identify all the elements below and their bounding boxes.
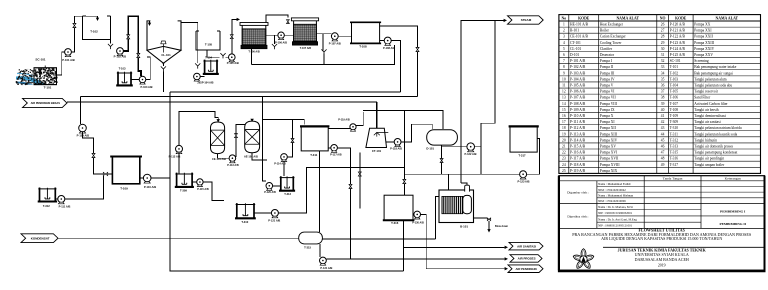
svg-text:Tangki umpan boiler: Tangki umpan boiler (694, 163, 725, 167)
svg-text:Tangki air bersih: Tangki air bersih (694, 108, 719, 112)
svg-text:CE-101 A/B: CE-101 A/B (570, 35, 588, 39)
svg-text:P-120 A/B: P-120 A/B (264, 191, 276, 194)
svg-text:Screening: Screening (694, 59, 709, 63)
tank T-311 (301, 126, 328, 150)
svg-text:Pompa XX: Pompa XX (694, 23, 710, 27)
svg-text:T-311: T-311 (310, 153, 317, 157)
svg-text:Keterangan: Keterangan (725, 177, 741, 181)
agitated tank T-310 (237, 205, 254, 219)
svg-text:T-105: T-105 (205, 43, 213, 47)
svg-text:P-105 A/B: P-105 A/B (227, 61, 239, 65)
agitated tank T-309 (177, 174, 193, 188)
pump P-121 A/B (254, 212, 272, 214)
wire P-113 discharge to AE column (235, 121, 252, 157)
svg-text:PEMBIMBING I: PEMBIMBING I (720, 209, 746, 213)
svg-text:T-103: T-103 (119, 66, 126, 70)
svg-text:Deaerator: Deaerator (600, 53, 615, 57)
svg-text:T-317: T-317 (670, 163, 679, 167)
wire D-101 outlet to P-122 (442, 145, 467, 174)
svg-text:Diperiksa oleh :: Diperiksa oleh : (567, 215, 588, 219)
wire P-105 discharge to sand filter (232, 19, 239, 54)
pump P-111 A/B (55, 198, 58, 200)
wire intake to pump P-101 (57, 52, 65, 75)
valve on riser x417 (416, 47, 419, 51)
agitated tank T-103 (118, 73, 131, 86)
pump P-103 A/B (131, 79, 139, 81)
pump SP-104 A/B (200, 76, 204, 78)
svg-text:T-310: T-310 (241, 220, 248, 224)
svg-text:8: 8 (563, 65, 565, 69)
svg-text:Digambar oleh :: Digambar oleh : (567, 191, 589, 195)
svg-text:17: 17 (562, 120, 566, 124)
wire T-105 outlet to P-105 (207, 50, 220, 57)
svg-text:2xSP-104 A/B: 2xSP-104 A/B (197, 81, 213, 84)
svg-text:Pompa III: Pompa III (600, 71, 615, 75)
svg-text:14: 14 (562, 102, 566, 106)
wire steam riser from boiler drum (461, 20, 504, 186)
svg-text:PEMBIMBING II: PEMBIMBING II (720, 222, 747, 226)
svg-text:P-112 A/B: P-112 A/B (570, 126, 586, 130)
cooling tower CT-101 (366, 128, 387, 147)
svg-text:STEAM: STEAM (521, 18, 532, 22)
svg-text:CL-101: CL-101 (570, 47, 581, 51)
wire header H2 (80, 95, 417, 97)
activated carbon filter T-107 A/B (291, 18, 318, 21)
svg-text:30: 30 (661, 47, 665, 51)
svg-text:AE-101 A/B: AE-101 A/B (244, 155, 258, 159)
svg-text:6: 6 (563, 53, 565, 57)
svg-text:T-101: T-101 (670, 65, 679, 69)
svg-text:P-130 A/B: P-130 A/B (412, 222, 424, 225)
wire P-109 discharge to T-109 (83, 132, 113, 174)
svg-text:T-104: T-104 (205, 55, 212, 59)
svg-text:25: 25 (562, 169, 566, 173)
svg-text:41: 41 (661, 114, 665, 118)
svg-text:D-101: D-101 (570, 53, 579, 57)
svg-text:P-117 A/B: P-117 A/B (570, 157, 586, 161)
svg-text:T-312: T-312 (670, 138, 679, 142)
svg-text:Pompa XII: Pompa XII (600, 126, 617, 130)
svg-text:43: 43 (661, 126, 665, 130)
svg-text:Heat Exchanger: Heat Exchanger (600, 23, 624, 27)
svg-text:P-104 A/B: P-104 A/B (570, 77, 586, 81)
svg-text:T-317: T-317 (518, 153, 526, 157)
svg-text:T-104: T-104 (670, 84, 679, 88)
wire CF to pump P-107 (323, 33, 331, 35)
wire T-311 down to condensate drum (318, 151, 320, 232)
valve between exchangers (235, 134, 238, 138)
wire P-118 discharge to drop line (401, 124, 432, 142)
valve on clarifier feed drop (137, 53, 140, 57)
banner AIR PENDINGIN (508, 265, 543, 273)
wire P-120 discharge to T-313 (273, 185, 281, 187)
svg-text:Pompa I: Pompa I (600, 59, 613, 63)
svg-text:Pompa XXIII: Pompa XXIII (694, 41, 714, 45)
valve on P-109 discharge (92, 153, 95, 157)
svg-text:P-117 A/B: P-117 A/B (330, 153, 342, 156)
pump P-107 A/B (331, 33, 338, 40)
svg-text:P-115 A/B: P-115 A/B (197, 188, 209, 191)
svg-text:P-102 A/B: P-102 A/B (570, 65, 586, 69)
svg-text:Tangki pelarutan soda abu: Tangki pelarutan soda abu (694, 84, 732, 88)
tank T-316 boiler feed (384, 195, 413, 220)
svg-text:CL-101: CL-101 (161, 53, 171, 57)
deaerator D-101 (427, 130, 458, 145)
pump P-117 A/B (328, 147, 331, 149)
wire header H4 to deaerator (363, 110, 443, 128)
svg-text:B-101: B-101 (570, 29, 579, 33)
wire CF right port drop to nozzle (316, 34, 323, 49)
wire riser to CE column (179, 112, 218, 146)
pump P-114 A/B (281, 154, 288, 161)
svg-text:Pompa V: Pompa V (600, 84, 614, 88)
cation exchanger CE-101 A/B (211, 122, 225, 154)
svg-text:NO: NO (660, 17, 666, 21)
svg-text:Clarifier: Clarifier (600, 47, 613, 51)
svg-text:P-118 A/B: P-118 A/B (570, 163, 586, 167)
svg-text:NAMA ALAT: NAMA ALAT (715, 17, 738, 21)
wire header H1 cooling water (170, 91, 401, 93)
svg-text:P-122 A/B: P-122 A/B (670, 35, 686, 39)
svg-text:29: 29 (661, 41, 665, 45)
svg-text:P-125 A/B: P-125 A/B (670, 53, 686, 57)
pump P-119 A/B (350, 124, 356, 130)
wire AIR SANITASI run (404, 246, 505, 248)
svg-text:39: 39 (661, 102, 665, 106)
svg-text:Activated Carbon filter: Activated Carbon filter (694, 102, 728, 106)
svg-text:P-121 A/B: P-121 A/B (670, 29, 686, 33)
svg-text:KODE: KODE (675, 17, 687, 21)
svg-text:AIR PENDINGIN BEKAS: AIR PENDINGIN BEKAS (31, 101, 61, 105)
svg-text:CT-101: CT-101 (372, 149, 382, 153)
svg-text:19: 19 (562, 132, 566, 136)
svg-text:38: 38 (661, 96, 665, 100)
svg-text:P-119 A/B: P-119 A/B (570, 169, 586, 173)
svg-text:HE-101 A/B: HE-101 A/B (570, 23, 589, 27)
agitated tank T-313 (281, 178, 294, 192)
pump P-120 A/B (266, 183, 273, 190)
svg-text:31: 31 (661, 53, 665, 57)
svg-text:P-115 A/B: P-115 A/B (570, 144, 586, 148)
svg-text:T-109: T-109 (670, 114, 679, 118)
banner AIR PENDINGIN BEKAS (23, 98, 68, 107)
pump P-113 A/B (229, 155, 236, 162)
wire clarifier feed hook left (147, 21, 150, 25)
valve on drop x350 (349, 184, 352, 188)
svg-text:DARUSSALAM BANDA ACEH: DARUSSALAM BANDA ACEH (635, 257, 689, 262)
svg-text:T-309: T-309 (670, 120, 679, 124)
wire P-130 discharge to AIR PENDINGIN (421, 214, 505, 268)
svg-text:D-101: D-101 (426, 146, 434, 150)
svg-text:T-103: T-103 (670, 77, 679, 81)
wire clarifier overflow to T-105 (181, 23, 198, 63)
svg-text:T-311: T-311 (670, 132, 679, 136)
svg-text:P-105 A/B: P-105 A/B (570, 84, 586, 88)
wire H2 down to pump P-109 (79, 96, 81, 124)
svg-text:48: 48 (661, 157, 665, 161)
svg-text:Pompa XVIII: Pompa XVIII (600, 163, 620, 167)
wire branch to T-311 (263, 120, 305, 125)
svg-text:28: 28 (661, 35, 665, 39)
svg-text:P-122 A/B: P-122 A/B (464, 152, 476, 156)
wire T-316 bottom to air sanitasi (403, 220, 405, 271)
svg-text:P-118 A/B: P-118 A/B (390, 147, 402, 151)
svg-text:22: 22 (562, 151, 566, 155)
svg-text:P-114 A/B: P-114 A/B (570, 138, 586, 142)
wire feed to pump P-114 w valve (287, 120, 292, 157)
svg-text:Tangki air pendingin: Tangki air pendingin (694, 157, 724, 161)
svg-text:T-108: T-108 (359, 45, 367, 49)
valve on CF inlet (287, 20, 290, 24)
svg-text:T-313: T-313 (670, 144, 679, 148)
svg-text:7: 7 (563, 59, 565, 63)
svg-text:T-312: T-312 (43, 204, 50, 208)
svg-text:P-102 A/B: P-102 A/B (114, 55, 127, 59)
svg-text:NIM : 1704102010042: NIM : 1704102010042 (598, 188, 626, 192)
wire AE bottom outlet (252, 153, 267, 160)
svg-text:23: 23 (562, 157, 566, 161)
valve on T-109 inlet (103, 172, 107, 175)
equipment list table (559, 15, 761, 174)
svg-text:T-310: T-310 (670, 126, 679, 130)
boiler B-101 (439, 190, 474, 223)
wire condensate return to boiler (322, 196, 439, 238)
svg-text:Cation Exchanger: Cation Exchanger (600, 35, 627, 39)
agitated tank T-104 (205, 61, 217, 75)
pump P-108 A/B (380, 40, 384, 42)
svg-text:T-105: T-105 (670, 90, 679, 94)
wire P-106 discharge to carbon filter (284, 34, 293, 36)
svg-text:Pompa X: Pompa X (600, 114, 614, 118)
wire T-311 to pump P-119 (328, 127, 350, 129)
svg-text:Tangki demineralisasi: Tangki demineralisasi (694, 114, 726, 118)
svg-text:Pompa IX: Pompa IX (600, 108, 615, 112)
wire P-102 discharge to clarifier feed (123, 16, 141, 76)
wire P-108 discharge down to header1 (391, 41, 400, 93)
pump P-118 A/B (386, 141, 394, 143)
banner AIR PROSES (510, 255, 542, 263)
pump P-122 A/B (467, 143, 475, 151)
svg-text:T-109: T-109 (120, 186, 128, 190)
svg-text:21: 21 (562, 144, 566, 148)
wire P-103 discharge (146, 57, 150, 80)
svg-text:P-120 A/B: P-120 A/B (670, 23, 686, 27)
pump P-109 A/B (79, 124, 87, 132)
svg-text:P-110 A/B: P-110 A/B (570, 114, 586, 118)
pump P-102 A/B (117, 48, 124, 55)
svg-text:B-101: B-101 (460, 224, 468, 228)
svg-text:3: 3 (563, 35, 565, 39)
svg-text:37: 37 (661, 90, 665, 94)
svg-text:P-107 A/B: P-107 A/B (329, 42, 341, 46)
svg-text:Tangki pelarutan natrium klori: Tangki pelarutan natrium klorida (694, 126, 742, 130)
svg-text:Boiler: Boiler (600, 29, 610, 33)
svg-text:33: 33 (661, 65, 665, 69)
wire AIR PROSES run (326, 258, 504, 260)
wire P-114 discharge to T-313 (283, 161, 285, 176)
svg-text:Tangki pelarutan alum: Tangki pelarutan alum (694, 77, 726, 81)
anion exchanger AE-101 A/B (245, 121, 260, 153)
tank T-105 (196, 31, 220, 50)
svg-text:No: No (562, 17, 567, 21)
svg-text:32: 32 (661, 59, 665, 63)
svg-text:Pompa VI: Pompa VI (600, 90, 615, 94)
wire T-102 outlet nozzle (110, 40, 112, 44)
svg-text:Pompa XV: Pompa XV (600, 144, 616, 148)
svg-text:40: 40 (661, 108, 665, 112)
svg-text:16: 16 (562, 114, 566, 118)
wire T-315 to pump P-131 (319, 244, 321, 257)
svg-text:27: 27 (661, 29, 665, 33)
svg-text:9: 9 (563, 71, 565, 75)
svg-text:P-124 A/B: P-124 A/B (670, 47, 686, 51)
svg-text:T-313: T-313 (284, 192, 291, 196)
wire P-121 discharge loop to air proses (278, 148, 404, 259)
wire P-111 discharge (65, 176, 104, 199)
svg-text:P-123 A/B: P-123 A/B (517, 179, 529, 183)
water intake screen SC-101 (16, 66, 58, 86)
wire T-108 top to header2 riser (380, 26, 418, 96)
wire blow down (474, 218, 490, 231)
svg-text:Pompa XVII: Pompa XVII (600, 157, 619, 161)
svg-text:Pompa II: Pompa II (600, 65, 614, 69)
svg-text:P-113 A/B: P-113 A/B (227, 164, 239, 167)
wire clarifier underflow (162, 63, 164, 66)
svg-text:SC-101: SC-101 (35, 57, 46, 61)
wire SF top to CF top (266, 15, 288, 23)
svg-text:AIR LIQUIDE DENGAN KAPASITAS P: AIR LIQUIDE DENGAN KAPASITAS PRODUKSI 15… (601, 236, 722, 241)
svg-text:Tangki penampung kondensat: Tangki penampung kondensat (694, 151, 737, 155)
svg-text:P-103 A/B: P-103 A/B (140, 85, 152, 89)
tank T-108 (352, 22, 380, 43)
svg-text:T-107: T-107 (670, 102, 679, 106)
wire header H3 from banner (67, 101, 377, 103)
svg-text:Bak penampung air sungai: Bak penampung air sungai (694, 71, 732, 75)
svg-text:2: 2 (563, 29, 565, 33)
pump P-130 A/B (412, 213, 415, 215)
pump P-101 A/B (65, 49, 72, 56)
svg-text:45: 45 (661, 138, 665, 142)
svg-text:2019: 2019 (658, 263, 666, 267)
wire steam branch down (481, 20, 495, 146)
wire P-101 discharge riser (71, 16, 97, 52)
svg-text:T-106: T-106 (670, 96, 679, 100)
svg-text:P-123 A/B: P-123 A/B (670, 41, 686, 45)
tank T-102 (bak air sungai) (82, 16, 110, 40)
svg-text:SC-101: SC-101 (670, 59, 681, 63)
svg-text:Bak penampung water intake: Bak penampung water intake (694, 65, 736, 69)
svg-text:KONDENSAT: KONDENSAT (31, 236, 50, 240)
svg-text:Pompa XXIV: Pompa XXIV (694, 47, 714, 51)
pump P-115 A/B (192, 181, 197, 183)
svg-text:Tangki hidrazin: Tangki hidrazin (694, 138, 717, 142)
pump P-112 A/B (176, 145, 183, 152)
svg-text:T-101: T-101 (44, 86, 52, 90)
svg-text:35: 35 (661, 77, 665, 81)
wire H2 branch down to chemical pumps (263, 96, 267, 181)
svg-text:Cooling Tower: Cooling Tower (600, 41, 622, 45)
svg-text:Pompa XI: Pompa XI (600, 120, 615, 124)
svg-text:Pompa XXII: Pompa XXII (694, 35, 713, 39)
wire SF right port to pump P-106 (266, 35, 278, 44)
wire P-122 discharge down (475, 147, 482, 175)
svg-text:11: 11 (562, 84, 566, 88)
svg-text:KODE: KODE (578, 17, 590, 21)
pump P-123 A/B (520, 171, 527, 178)
svg-text:P-113 A/B: P-113 A/B (570, 132, 586, 136)
condensate drum T-315 (299, 232, 323, 244)
svg-text:NIP : 196803121995121001: NIP : 196803121995121001 (598, 224, 633, 228)
agitated tank T-312 (40, 189, 56, 202)
wire boiler feed header (404, 174, 519, 190)
wire P-107 discharge to T-108 (338, 35, 351, 37)
svg-text:49: 49 (661, 163, 665, 167)
svg-text:42: 42 (661, 120, 665, 124)
title block (558, 176, 766, 271)
svg-text:18: 18 (562, 126, 566, 130)
svg-text:44: 44 (661, 132, 665, 136)
svg-text:P-111 A/B: P-111 A/B (59, 204, 71, 208)
svg-text:P-101 A/B: P-101 A/B (62, 58, 75, 62)
svg-text:Blow down: Blow down (495, 225, 509, 228)
svg-text:13: 13 (562, 96, 566, 100)
svg-text:P-131 A/B: P-131 A/B (320, 266, 332, 270)
svg-text:P-106 A/B: P-106 A/B (275, 41, 287, 45)
svg-text:P-111 A/B: P-111 A/B (570, 120, 586, 124)
svg-text:P-109 A/B: P-109 A/B (570, 108, 586, 112)
svg-text:Sand Filter: Sand Filter (694, 96, 711, 100)
wire T-317 outlet to pump P-123 (527, 139, 540, 175)
svg-text:Pompa XVI: Pompa XVI (600, 151, 618, 155)
logo Universitas Syiah Kuala (572, 249, 594, 270)
svg-text:26: 26 (661, 23, 665, 27)
svg-text:15: 15 (562, 108, 566, 112)
tank T-317 (510, 126, 537, 152)
pump P-105 A/B (229, 54, 236, 61)
svg-text:Pompa XXV: Pompa XXV (694, 53, 713, 57)
svg-text:AIR PROSES: AIR PROSES (518, 257, 536, 261)
valve on P-102 discharge (127, 35, 130, 39)
wire P-119 discharge to H4 (356, 112, 363, 126)
svg-text:T-315: T-315 (670, 151, 679, 155)
wire P-110 discharge to long vertical (151, 177, 170, 179)
svg-text:47: 47 (661, 151, 665, 155)
svg-text:P-106 A/B: P-106 A/B (570, 90, 586, 94)
wire T-309 to P-112 suction (178, 152, 180, 174)
svg-text:Pompa VIII: Pompa VIII (600, 102, 618, 106)
svg-text:Tangki reservoir: Tangki reservoir (694, 90, 718, 94)
wire P-117 discharge to drop (337, 148, 350, 168)
svg-text:T-316: T-316 (670, 157, 679, 161)
nozzle on header (323, 53, 325, 64)
svg-text:T-107 A/B: T-107 A/B (300, 47, 311, 50)
svg-text:Pompa XIII: Pompa XIII (600, 132, 618, 136)
svg-text:P-101 A/B: P-101 A/B (570, 59, 586, 63)
svg-text:Pompa XXI: Pompa XXI (694, 29, 712, 33)
svg-text:T-108: T-108 (670, 108, 679, 112)
svg-text:Tangki pelarutan kaustik soda: Tangki pelarutan kaustik soda (694, 132, 737, 136)
svg-text:1: 1 (563, 23, 565, 27)
svg-text:36: 36 (661, 84, 665, 88)
svg-text:Nama : Muhammad Hielman: Nama : Muhammad Hielman (598, 193, 634, 197)
valve on SF inlet riser (230, 35, 233, 39)
svg-text:P-116 A/B: P-116 A/B (570, 151, 586, 155)
svg-text:T-102: T-102 (670, 71, 679, 75)
svg-text:P-108 A/B: P-108 A/B (570, 102, 586, 106)
svg-text:24: 24 (562, 163, 566, 167)
svg-text:P-119 A/B: P-119 A/B (338, 118, 350, 121)
svg-text:T-315: T-315 (304, 246, 311, 250)
